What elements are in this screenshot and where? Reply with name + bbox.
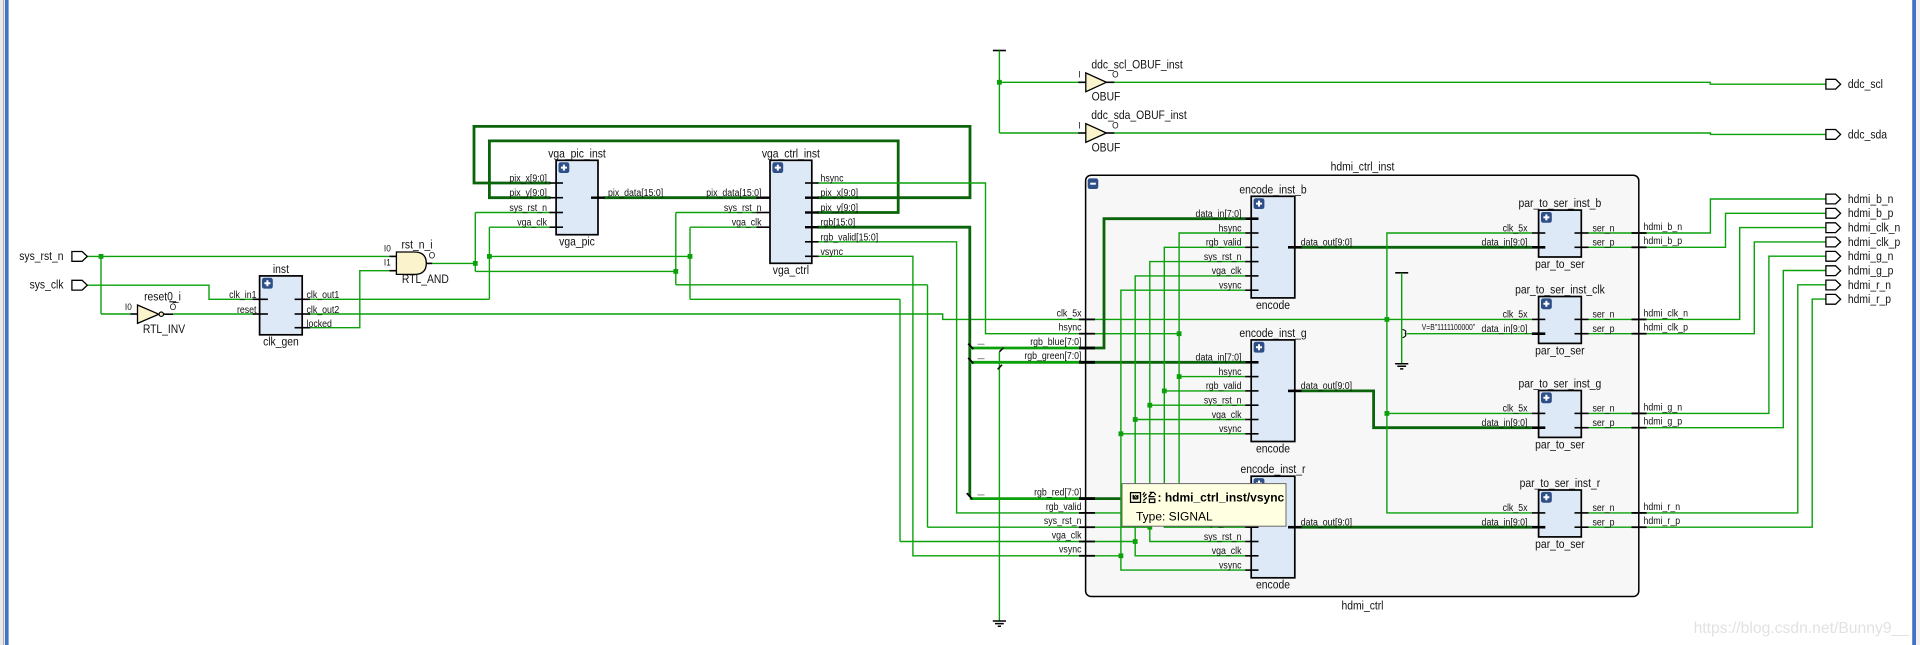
wire constant vertical xyxy=(1401,273,1403,364)
window border left xyxy=(0,0,3,645)
svg-text:Type: SIGNAL: Type: SIGNAL xyxy=(1136,510,1213,524)
svg-text:ser_p: ser_p xyxy=(1593,516,1615,528)
partial-select mark rgb_red xyxy=(978,494,985,496)
svg-text:sys_rst_n: sys_rst_n xyxy=(1044,515,1082,527)
svg-text:data_in[7:0]: data_in[7:0] xyxy=(1196,351,1242,363)
input port sys_clk xyxy=(30,279,88,292)
wire net vga_clk cross run y256 xyxy=(489,255,690,257)
wire net reset0_i INV out to clk_gen reset xyxy=(173,313,254,315)
junction sys_rst_n xyxy=(99,254,104,259)
svg-text:rgb_valid: rgb_valid xyxy=(1046,500,1082,512)
svg-text:O: O xyxy=(1112,120,1119,131)
svg-text:encode: encode xyxy=(1256,579,1290,592)
wire riser vsync x1121 xyxy=(1121,290,1245,570)
svg-text:I1: I1 xyxy=(384,257,391,268)
svg-text:ser_p: ser_p xyxy=(1593,322,1615,334)
wire net hdmi_g_p to output port xyxy=(1589,271,1826,428)
svg-text:encode: encode xyxy=(1256,299,1290,312)
bus rgb_green to encode_inst_g data_in xyxy=(1087,361,1245,364)
wire net rgb_valid inside to riser xyxy=(1087,512,1164,514)
ground symbol bottom xyxy=(993,621,1006,626)
wire net rst_n_i AND output xyxy=(432,262,475,264)
svg-text:sys_rst_n: sys_rst_n xyxy=(1204,530,1242,542)
junction vga_clk riser g xyxy=(1133,417,1138,422)
wire net ddc_scl_OBUF_n to port xyxy=(1114,82,1826,84)
svg-text:data_in[9:0]: data_in[9:0] xyxy=(1482,416,1528,428)
svg-text:par_to_ser: par_to_ser xyxy=(1535,439,1585,452)
svg-text:hdmi_clk_p: hdmi_clk_p xyxy=(1644,321,1688,333)
svg-text:vga_ctrl_inst: vga_ctrl_inst xyxy=(762,148,821,161)
wire net sys_rst_n input to RTL_AND I0 xyxy=(87,255,389,257)
svg-text:clk_out2: clk_out2 xyxy=(307,303,340,315)
svg-text:encode_inst_g: encode_inst_g xyxy=(1239,327,1306,340)
output port hdmi_b_n xyxy=(1826,194,1841,204)
wire riser rgb_valid x1164 xyxy=(1164,247,1245,527)
wire net rst_n_i riser x676 xyxy=(675,213,677,285)
svg-text:hdmi_r_n: hdmi_r_n xyxy=(1848,279,1891,292)
junction obuf feed xyxy=(997,80,1002,85)
wire net ddc_sda_OBUF_n to port xyxy=(1114,133,1826,134)
module encode_inst_g xyxy=(1239,327,1306,455)
svg-text:hdmi_b_p: hdmi_b_p xyxy=(1848,208,1893,221)
svg-text:reset: reset xyxy=(237,303,257,315)
wire net vsync vga_ctrl to hdmi_ctrl xyxy=(818,256,1088,556)
wire net sys_rst_n to RTL_INV I0 xyxy=(101,313,131,315)
svg-text:ser_n: ser_n xyxy=(1593,502,1615,514)
hdmi_ctrl_inst collapse icon xyxy=(1088,178,1099,189)
wire net vga_clk into hdmi_ctrl pin xyxy=(900,541,1087,543)
wire net rst_n_i into vga_pic sys_rst_n xyxy=(475,212,550,214)
bus tap tick at x999 lower xyxy=(998,365,1002,370)
ground symbol constant xyxy=(1395,364,1408,369)
svg-text:hdmi_g_n: hdmi_g_n xyxy=(1644,401,1683,413)
bus rgb_blue to encode_inst_b data_in xyxy=(1087,219,1245,348)
wire net rst_n_i run y271 xyxy=(475,270,676,272)
wire net hdmi_r_n to output port xyxy=(1589,285,1826,513)
junction vsync riser g xyxy=(1119,431,1124,436)
svg-text:OBUF: OBUF xyxy=(1092,91,1121,104)
svg-text:clk_5x: clk_5x xyxy=(1503,402,1528,414)
svg-text:sys_rst_n: sys_rst_n xyxy=(19,250,63,263)
svg-text:rgb_blue[7:0]: rgb_blue[7:0] xyxy=(1030,335,1081,347)
svg-text:vsync: vsync xyxy=(1219,559,1242,571)
module par_to_ser_inst_r xyxy=(1520,477,1601,551)
svg-text:hdmi_ctrl: hdmi_ctrl xyxy=(1342,600,1384,613)
partial-select mark rgb_green xyxy=(978,358,985,360)
svg-text:par_to_ser_inst_g: par_to_ser_inst_g xyxy=(1519,378,1602,391)
svg-text:encode: encode xyxy=(1256,443,1290,456)
wire net hdmi_g_n to output port xyxy=(1589,256,1826,413)
wire riser sys_rst_n x1150 xyxy=(1150,262,1245,542)
svg-text:vga_clk: vga_clk xyxy=(732,216,762,228)
wire vga_clk to encode_inst_g xyxy=(1135,419,1245,421)
svg-text:locked: locked xyxy=(307,317,332,329)
module vga_ctrl_inst xyxy=(757,148,821,278)
svg-text:ddc_sda_OBUF_inst: ddc_sda_OBUF_inst xyxy=(1091,110,1187,123)
inverter reset0_i RTL_INV xyxy=(125,291,186,336)
svg-text:clk_gen: clk_gen xyxy=(263,336,299,349)
svg-text:hdmi_r_p: hdmi_r_p xyxy=(1644,515,1681,527)
module clk_gen inst xyxy=(253,263,310,349)
svg-text:data_in[7:0]: data_in[7:0] xyxy=(1196,207,1242,219)
svg-text:ddc_sda: ddc_sda xyxy=(1848,129,1888,142)
wire net rgb_valid vga_ctrl to hdmi_ctrl xyxy=(818,242,1088,513)
svg-text:O: O xyxy=(1112,69,1119,80)
partial-select mark rgb_blue xyxy=(978,343,985,345)
wire net locked clk_gen to RTL_AND I1 xyxy=(309,271,390,328)
wire net clk_5x clk_out2 to hdmi_ctrl xyxy=(309,314,1088,319)
wire into ddc_scl_OBUF xyxy=(999,81,1078,83)
wire net sys_rst_n branch down to RTL_INV xyxy=(100,256,102,314)
svg-text:par_to_ser: par_to_ser xyxy=(1535,538,1585,551)
svg-text:O: O xyxy=(429,250,436,261)
svg-text:sys_clk: sys_clk xyxy=(30,279,64,292)
wire vsync to encode_inst_g xyxy=(1121,433,1245,435)
wire net clk_5x inside hdmi_ctrl xyxy=(1087,318,1532,320)
svg-text:V=B"1111100000": V=B"1111100000" xyxy=(1422,322,1476,332)
bus tap tick rgb_blue xyxy=(968,344,973,350)
output port hdmi_r_n xyxy=(1826,280,1841,290)
wire net vga_clk into vga_ctrl xyxy=(690,226,758,228)
svg-text:clk_out1: clk_out1 xyxy=(307,288,340,300)
svg-text:vsync: vsync xyxy=(1219,423,1242,435)
wire net hdmi_b_p to output port xyxy=(1589,213,1826,247)
wire net hdmi_b_n to output port xyxy=(1589,199,1826,233)
svg-text:vsync: vsync xyxy=(1219,279,1242,291)
svg-text:hdmi_g_p: hdmi_g_p xyxy=(1644,415,1683,427)
tooltip CJK glyph luo xyxy=(1143,492,1156,502)
module encode_inst_b xyxy=(1239,184,1306,312)
junction rst_n_i at AND output xyxy=(473,261,478,266)
junction vga_clk x489 xyxy=(487,254,492,259)
wire riser hsync x1179 xyxy=(1179,233,1245,513)
wire net rst_n_i into hdmi_ctrl sys_rst_n pin xyxy=(928,526,1088,528)
wire net hsync vga_ctrl to hdmi_ctrl xyxy=(818,183,1088,334)
svg-text:vga_pic_inst: vga_pic_inst xyxy=(548,148,606,161)
svg-text:hdmi_b_n: hdmi_b_n xyxy=(1848,193,1893,206)
svg-text:RTL_INV: RTL_INV xyxy=(143,323,186,336)
wire net hdmi_clk_n to output port xyxy=(1589,228,1826,320)
junction hsync riser feed xyxy=(1177,331,1182,336)
module hdmi_ctrl_inst outline xyxy=(1086,175,1639,596)
constant brace xyxy=(1403,330,1406,338)
svg-text:hdmi_r_n: hdmi_r_n xyxy=(1644,500,1681,512)
junction rst_n_i x676 xyxy=(673,269,678,274)
wire net rst_n_i riser x475 xyxy=(474,213,476,272)
svg-text:hdmi_b_n: hdmi_b_n xyxy=(1644,220,1683,232)
svg-text:rgb_green[7:0]: rgb_green[7:0] xyxy=(1024,350,1081,362)
bus tap tick at x999 top xyxy=(999,348,1003,352)
svg-text:hsync: hsync xyxy=(1059,321,1082,333)
wire net rst_n_i run y285 xyxy=(676,284,928,286)
svg-text:vga_ctrl: vga_ctrl xyxy=(773,265,809,278)
svg-text:clk_5x: clk_5x xyxy=(1503,502,1528,514)
module par_to_ser_inst_g xyxy=(1519,378,1602,452)
svg-text:pix_data[15:0]: pix_data[15:0] xyxy=(706,187,761,199)
junction rgb_valid riser feed xyxy=(1162,511,1167,516)
svg-text:vga_clk: vga_clk xyxy=(1212,265,1242,277)
svg-text:pix_data[15:0]: pix_data[15:0] xyxy=(608,187,663,199)
svg-text:vga_clk: vga_clk xyxy=(1212,545,1242,557)
svg-text:hsync: hsync xyxy=(821,172,844,184)
bus rgb_red[7:0] tap xyxy=(970,497,1087,500)
bus rgb[15:0] vga_ctrl output xyxy=(818,227,970,496)
svg-text:clk_5x: clk_5x xyxy=(1503,222,1528,234)
svg-text:I0: I0 xyxy=(125,302,132,313)
buffer ddc_scl_OBUF_inst OBUF xyxy=(1078,59,1183,104)
svg-text:OBUF: OBUF xyxy=(1092,142,1121,155)
svg-text:clk_in1: clk_in1 xyxy=(229,288,256,300)
svg-text:vga_clk: vga_clk xyxy=(517,216,547,228)
window border right xyxy=(1912,0,1916,645)
svg-text:rgb_valid[15:0]: rgb_valid[15:0] xyxy=(821,231,879,243)
svg-text:par_to_ser_inst_r: par_to_ser_inst_r xyxy=(1520,477,1601,490)
svg-text:hdmi_r_p: hdmi_r_p xyxy=(1848,294,1891,307)
svg-text:I: I xyxy=(1078,120,1080,131)
junction sys_rst_n riser feed xyxy=(1147,525,1152,530)
svg-text:par_to_ser: par_to_ser xyxy=(1535,258,1585,271)
bus rgb_blue[7:0] tap xyxy=(970,347,1087,350)
svg-text:vga_pic: vga_pic xyxy=(559,236,595,249)
junction clk_5x feed xyxy=(1385,317,1390,322)
svg-text:I: I xyxy=(1078,69,1080,80)
wire net sys_clk to clk_gen clk_in1 xyxy=(87,285,254,299)
svg-text:ddc_scl_OBUF_inst: ddc_scl_OBUF_inst xyxy=(1091,59,1183,72)
svg-text:vga_clk: vga_clk xyxy=(1212,408,1242,420)
output port hdmi_g_p xyxy=(1826,266,1841,276)
junction hsync riser g xyxy=(1177,374,1182,379)
wire rgb_valid to encode_inst_g xyxy=(1164,390,1245,392)
svg-text:RTL_AND: RTL_AND xyxy=(402,273,449,286)
wire net vsync inside to riser xyxy=(1087,555,1121,557)
svg-text:par_to_ser: par_to_ser xyxy=(1535,345,1585,358)
svg-text:pix_x[9:0]: pix_x[9:0] xyxy=(509,172,547,184)
junction vga_clk x690 xyxy=(688,254,693,259)
svg-text:hdmi_clk_n: hdmi_clk_n xyxy=(1644,307,1688,319)
svg-text:pix_x[9:0]: pix_x[9:0] xyxy=(821,187,859,199)
wire net vga_clk into vga_pic xyxy=(489,226,550,228)
wire net vga_clk drop at x900 xyxy=(899,299,901,541)
wire net sys_rst_n inside to riser xyxy=(1087,526,1150,528)
module vga_pic_inst xyxy=(548,148,606,249)
buffer ddc_sda_OBUF_inst OBUF xyxy=(1078,110,1187,155)
wire net hdmi_r_p to output port xyxy=(1589,299,1826,527)
junction rgb_valid riser g xyxy=(1162,389,1167,394)
svg-text:par_to_ser_inst_b: par_to_ser_inst_b xyxy=(1519,197,1602,210)
wire net clk_5x riser x1387 xyxy=(1387,233,1532,513)
wire net hsync inside to riser xyxy=(1087,333,1179,335)
svg-text:hdmi_g_n: hdmi_g_n xyxy=(1848,251,1893,264)
bus tap tick rgb_green xyxy=(968,358,973,364)
wire net vga_clk run y299 xyxy=(690,298,900,300)
svg-text:vsync: vsync xyxy=(1059,543,1082,555)
wire net rst_n_i into vga_ctrl sys_rst_n xyxy=(676,212,758,214)
power tbar constant xyxy=(1395,272,1408,274)
module encode_inst_r xyxy=(1241,464,1306,592)
svg-text:hdmi_clk_n: hdmi_clk_n xyxy=(1848,222,1900,235)
bus rgb_green[7:0] tap xyxy=(970,361,1087,364)
svg-text:hdmi_ctrl_inst: hdmi_ctrl_inst xyxy=(1331,161,1396,174)
bus data_out encode_r to par_to_ser_r xyxy=(1301,526,1532,529)
svg-text:data_in[9:0]: data_in[9:0] xyxy=(1482,322,1528,334)
tooltip CJK glyph wang xyxy=(1131,493,1141,503)
svg-text:ddc_scl: ddc_scl xyxy=(1848,78,1883,91)
bus rgb_red to encode_inst_r data_in xyxy=(1087,497,1245,500)
svg-text:O: O xyxy=(170,302,177,313)
svg-text:: hdmi_ctrl_inst/vsync: : hdmi_ctrl_inst/vsync xyxy=(1158,491,1285,505)
svg-text:sys_rst_n: sys_rst_n xyxy=(724,201,762,213)
svg-text:hdmi_g_p: hdmi_g_p xyxy=(1848,265,1893,278)
output port hdmi_r_p xyxy=(1826,294,1841,304)
output port hdmi_clk_n xyxy=(1826,223,1841,233)
wire riser vga_clk x1135 xyxy=(1135,276,1245,556)
svg-text:rst_n_i: rst_n_i xyxy=(401,239,432,252)
power tbar top xyxy=(993,50,1006,52)
wire obuf feed vertical xyxy=(998,51,1000,134)
and gate rst_n_i RTL_AND xyxy=(384,239,449,286)
bus pix_data[15:0] vga_pic to vga_ctrl xyxy=(604,196,758,199)
svg-text:data_out[9:0]: data_out[9:0] xyxy=(1301,380,1352,392)
output port hdmi_clk_p xyxy=(1826,237,1841,247)
junction sys_rst_n riser g xyxy=(1147,403,1152,408)
svg-text:clk_5x: clk_5x xyxy=(1057,307,1082,319)
svg-text:hsync: hsync xyxy=(1219,222,1242,234)
svg-text:encode_inst_r: encode_inst_r xyxy=(1241,464,1306,477)
svg-text:vga_clk: vga_clk xyxy=(1052,529,1082,541)
svg-text:hsync: hsync xyxy=(1219,365,1242,377)
svg-text:pix_y[9:0]: pix_y[9:0] xyxy=(821,201,859,213)
svg-text:sys_rst_n: sys_rst_n xyxy=(509,201,547,213)
output port ddc_sda xyxy=(1826,130,1841,140)
svg-text:rgb_valid: rgb_valid xyxy=(1206,380,1242,392)
svg-text:rgb_red[7:0]: rgb_red[7:0] xyxy=(1034,486,1081,498)
wire hsync to encode_inst_g xyxy=(1179,376,1245,378)
svg-text:rgb[15:0]: rgb[15:0] xyxy=(821,216,856,228)
wire net vga_clk riser at x489 xyxy=(488,227,490,299)
wire net vga_clk inside to riser xyxy=(1087,541,1135,543)
svg-text:I0: I0 xyxy=(384,243,391,254)
module par_to_ser_inst_clk xyxy=(1515,284,1605,358)
svg-text:sys_rst_n: sys_rst_n xyxy=(1204,394,1242,406)
wire constant to par_to_ser_clk data_in xyxy=(1407,333,1532,335)
bus data_out encode_b to par_to_ser_b xyxy=(1301,246,1532,249)
svg-text:data_out[9:0]: data_out[9:0] xyxy=(1301,516,1352,528)
svg-text:sys_rst_n: sys_rst_n xyxy=(1204,250,1242,262)
svg-text:ser_n: ser_n xyxy=(1593,308,1615,320)
output port ddc_scl xyxy=(1826,79,1841,89)
wire into ddc_sda_OBUF xyxy=(999,132,1078,134)
output port hdmi_g_n xyxy=(1826,251,1841,261)
svg-text:vsync: vsync xyxy=(821,245,844,257)
svg-text:pix_y[9:0]: pix_y[9:0] xyxy=(509,187,547,199)
input port sys_rst_n xyxy=(19,250,87,263)
wire ground branch x999 xyxy=(998,352,1000,621)
bus data_out encode_g to par_to_ser_g xyxy=(1301,391,1532,428)
svg-text:data_in[9:0]: data_in[9:0] xyxy=(1482,516,1528,528)
svg-text:ser_p: ser_p xyxy=(1593,416,1615,428)
output port hdmi_b_p xyxy=(1826,208,1841,218)
svg-text:https://blog.csdn.net/Bunny9__: https://blog.csdn.net/Bunny9__ xyxy=(1694,620,1910,637)
wire net rst_n_i drop x927 xyxy=(927,285,929,527)
wire net vga_clk clk_out1 run xyxy=(309,298,490,300)
module par_to_ser_inst_b xyxy=(1519,197,1602,271)
svg-text:encode_inst_b: encode_inst_b xyxy=(1239,184,1306,197)
hdmi_ctrl_inst left edge pin stubs xyxy=(1079,319,1095,555)
svg-text:ser_n: ser_n xyxy=(1593,222,1615,234)
wire clk_5x to par_to_ser_g xyxy=(1387,412,1532,414)
svg-text:data_in[9:0]: data_in[9:0] xyxy=(1482,236,1528,248)
svg-text:data_out[9:0]: data_out[9:0] xyxy=(1301,236,1352,248)
junction vga_clk riser feed xyxy=(1133,539,1138,544)
wire sys_rst_n to encode_inst_g xyxy=(1150,404,1245,406)
svg-text:hdmi_b_p: hdmi_b_p xyxy=(1644,235,1683,247)
svg-text:clk_5x: clk_5x xyxy=(1503,308,1528,320)
bus pix_y[9:0] feedback loop xyxy=(489,141,898,213)
wire net hdmi_clk_p to output port xyxy=(1589,242,1826,334)
svg-text:par_to_ser_inst_clk: par_to_ser_inst_clk xyxy=(1515,284,1605,297)
tooltip net hdmi_ctrl_inst/vsync xyxy=(1122,484,1286,527)
junction vsync riser feed xyxy=(1119,553,1124,558)
junction clk_5x g xyxy=(1385,411,1390,416)
svg-text:rgb_valid: rgb_valid xyxy=(1206,236,1242,248)
svg-text:ser_p: ser_p xyxy=(1593,236,1615,248)
wire net vga_clk riser at x690 xyxy=(689,227,691,299)
bus tap tick rgb_red xyxy=(967,493,972,499)
svg-text:ser_n: ser_n xyxy=(1593,402,1615,414)
svg-text:inst: inst xyxy=(273,263,290,276)
hdmi_ctrl_inst right edge pin stubs xyxy=(1632,233,1647,527)
bus pix_x[9:0] feedback loop xyxy=(474,126,970,197)
svg-text:hdmi_clk_p: hdmi_clk_p xyxy=(1848,236,1900,249)
